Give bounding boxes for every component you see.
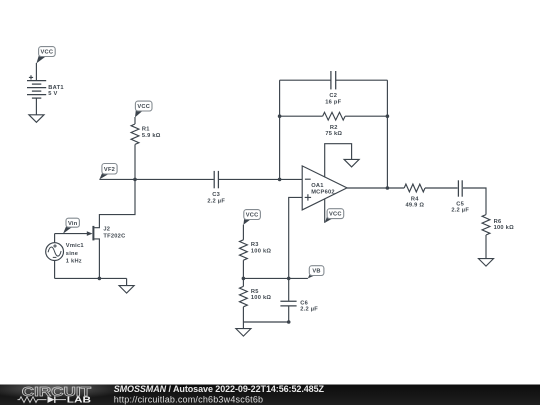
svg-text:LAB: LAB — [67, 395, 91, 405]
wire feedback right vertical — [386, 80, 388, 188]
capacitor C6 — [280, 301, 318, 313]
wire R3 bottom — [242, 260, 244, 286]
op-amp OA1 MCP602 — [302, 166, 347, 210]
junction — [242, 277, 246, 281]
svg-text:OA1: OA1 — [311, 183, 323, 189]
junction — [98, 277, 102, 281]
source Vmic1 — [46, 243, 84, 265]
svg-text:16 pF: 16 pF — [325, 99, 341, 105]
junction — [386, 186, 390, 190]
svg-text:5.9 kΩ: 5.9 kΩ — [142, 133, 161, 139]
resistor R3 — [240, 240, 272, 260]
svg-text:R2: R2 — [330, 125, 338, 131]
wire op-amp + input stub — [289, 197, 303, 278]
capacitor C3 — [207, 171, 225, 205]
wire feedback left vertical — [279, 80, 281, 179]
wire R5 bottom — [242, 307, 244, 322]
wire op-amp V+ pin to ground — [325, 144, 352, 178]
svg-text:TF202C: TF202C — [103, 233, 125, 239]
JFET J2 — [87, 226, 126, 241]
wire gate — [55, 233, 88, 235]
wire battery top — [35, 63, 37, 81]
resistor R4 — [404, 184, 425, 208]
capacitor C5 — [451, 180, 469, 213]
wire feedback top right — [336, 79, 388, 81]
svg-text:http://circuitlab.com/ch6b3w4s: http://circuitlab.com/ch6b3w4sc6t6b — [114, 394, 264, 404]
wire R4 to C5 — [425, 187, 458, 189]
svg-text:49.9 Ω: 49.9 Ω — [405, 203, 424, 209]
svg-text:MCP602: MCP602 — [311, 189, 335, 195]
svg-text:VCC: VCC — [246, 213, 259, 219]
svg-text:R5: R5 — [251, 289, 259, 295]
junction — [287, 320, 291, 324]
wire R1 top — [134, 117, 136, 124]
junction — [386, 114, 390, 118]
wire R2 left lead — [280, 115, 323, 117]
resistor R2 — [323, 112, 346, 137]
wire mid row to VB — [243, 277, 308, 279]
CircuitLab logo — [18, 384, 92, 405]
footer bar — [0, 377, 540, 405]
wire C3 to op-amp — [219, 178, 302, 180]
resistor R6 — [482, 215, 514, 235]
VCC flag (op-amp V-) — [325, 209, 344, 223]
ground (battery) — [29, 115, 44, 123]
svg-text:VCC: VCC — [41, 50, 54, 56]
svg-text:VCC: VCC — [329, 212, 342, 218]
VCC flag (battery) — [36, 47, 55, 64]
junction — [133, 178, 137, 182]
svg-text:R6: R6 — [494, 219, 502, 225]
wire ground stub — [126, 278, 128, 285]
svg-text:2.2 µF: 2.2 µF — [207, 198, 225, 204]
wire bottom row — [243, 321, 288, 323]
svg-text:C5: C5 — [456, 201, 464, 207]
junction — [278, 178, 282, 182]
net flag Vin — [63, 218, 79, 234]
svg-text:J2: J2 — [103, 226, 110, 232]
wire feedback top left — [280, 79, 331, 81]
VCC flag (R1) — [135, 101, 152, 117]
ground (R6) — [479, 259, 494, 267]
wire R3 top — [242, 225, 244, 240]
battery BAT1 — [27, 75, 64, 98]
svg-text:C2: C2 — [329, 93, 337, 99]
wire source path — [94, 239, 99, 279]
wire R2 right lead — [345, 115, 387, 117]
ground (source) — [119, 286, 134, 294]
svg-text:100 kΩ: 100 kΩ — [251, 295, 271, 301]
wire battery bottom — [35, 98, 37, 115]
svg-text:100 kΩ: 100 kΩ — [494, 225, 514, 231]
wire output — [347, 187, 404, 189]
svg-text:VB: VB — [312, 269, 320, 275]
wire ground stub — [242, 322, 244, 329]
svg-text:C6: C6 — [300, 301, 308, 307]
svg-text:5 V: 5 V — [48, 91, 57, 97]
junction — [287, 277, 291, 281]
wire source bottom row — [55, 277, 127, 279]
svg-text:100 kΩ: 100 kΩ — [251, 248, 271, 254]
net flag VF2 — [99, 164, 117, 180]
svg-text:VF2: VF2 — [104, 167, 115, 173]
wire drain path — [94, 179, 135, 227]
wire Vmic1 top — [54, 234, 56, 243]
svg-text:R1: R1 — [142, 127, 150, 133]
svg-text:Vin: Vin — [68, 221, 78, 227]
svg-text:R3: R3 — [251, 242, 259, 248]
wire Vmic1 bottom — [54, 261, 56, 279]
wire R6 bottom — [485, 235, 487, 259]
resistor R5 — [240, 286, 272, 306]
svg-text:1 kHz: 1 kHz — [66, 259, 82, 265]
svg-text:R4: R4 — [411, 196, 419, 202]
svg-text:75 kΩ: 75 kΩ — [325, 131, 342, 137]
resistor R1 — [131, 124, 161, 144]
svg-text:sine: sine — [66, 251, 78, 257]
svg-text:2.2 µF: 2.2 µF — [300, 307, 318, 313]
net flag VB — [308, 266, 324, 279]
wire C5 to R6 — [463, 188, 486, 215]
svg-text:2.2 µF: 2.2 µF — [451, 208, 469, 214]
wire C6 bottom lead — [288, 306, 290, 322]
junction — [278, 114, 282, 118]
ground (op-amp V+) — [344, 159, 359, 167]
svg-text:Vmic1: Vmic1 — [66, 243, 84, 249]
wire C6 top lead — [288, 278, 290, 300]
wire R1 bottom — [134, 144, 136, 179]
svg-text:BAT1: BAT1 — [48, 85, 63, 91]
svg-text:VCC: VCC — [137, 104, 150, 110]
svg-text:C3: C3 — [212, 192, 220, 198]
footer text — [114, 384, 325, 404]
ground (R5) — [236, 329, 251, 337]
VCC flag (R3) — [243, 210, 260, 225]
wire VF2 node — [99, 178, 213, 180]
svg-text:SMOSSMAN / Autosave 2022-09-22: SMOSSMAN / Autosave 2022-09-22T14:56:52.… — [114, 384, 325, 394]
capacitor C2 — [325, 71, 341, 105]
wire op-amp V- pin — [324, 199, 326, 223]
